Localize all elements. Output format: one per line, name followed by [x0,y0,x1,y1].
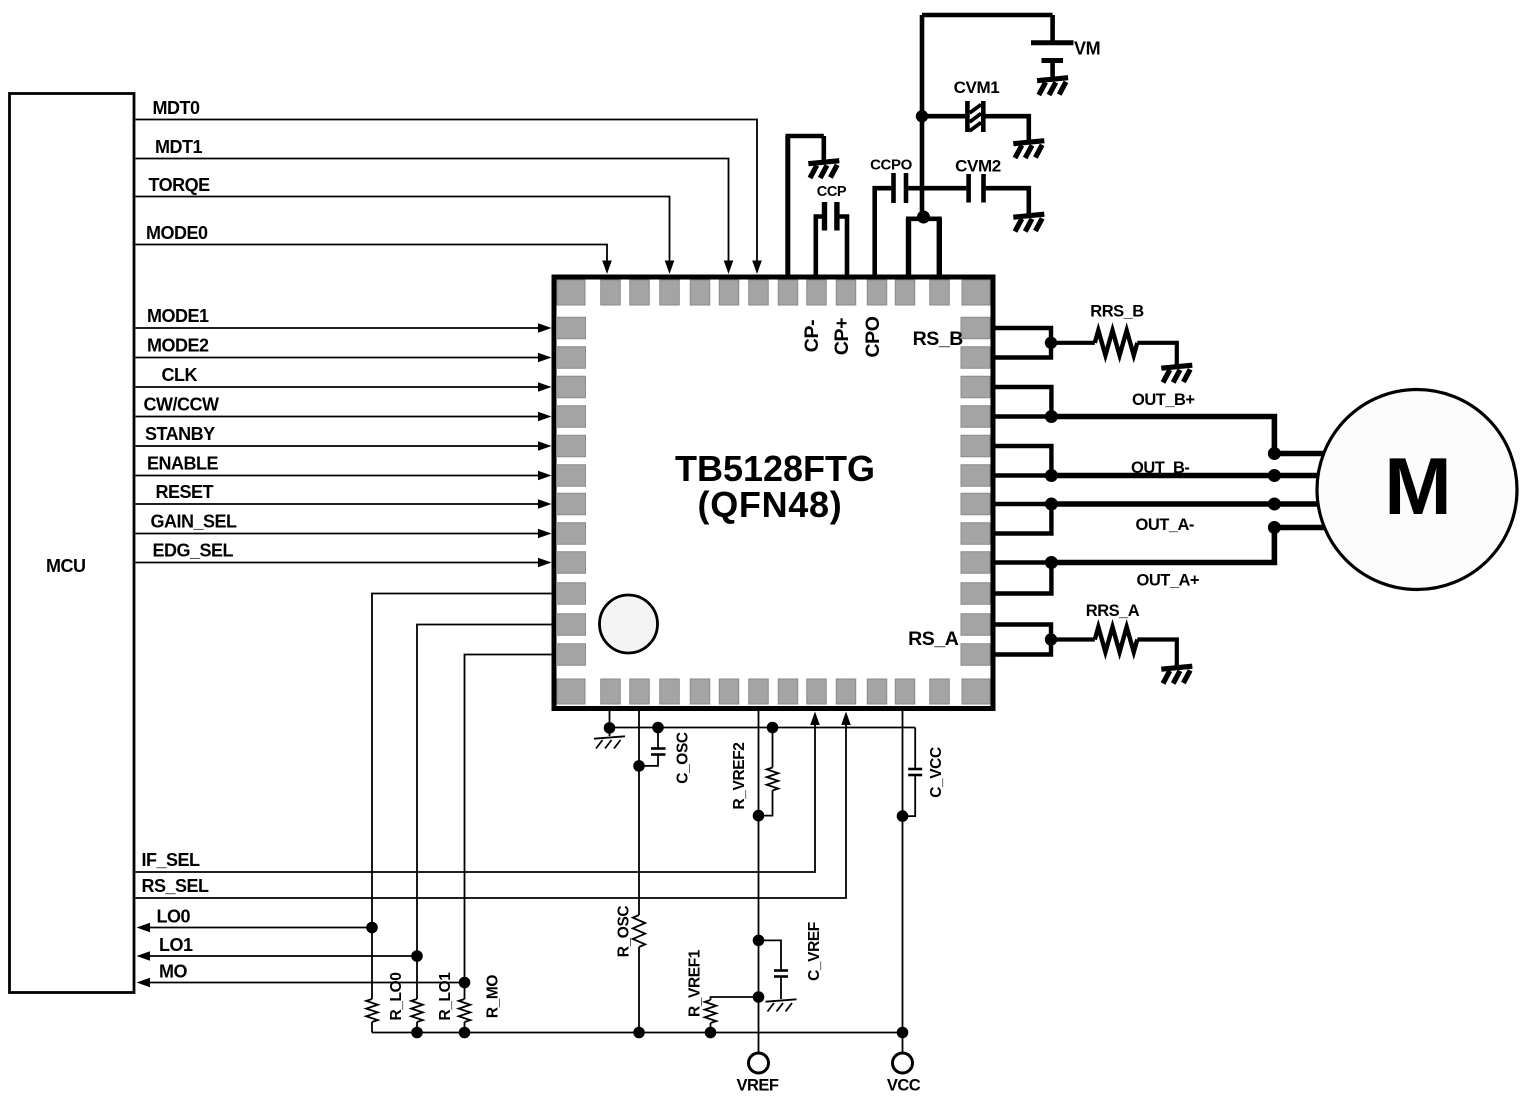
motor M [1317,390,1517,590]
node R_VREF2 bottom on VREF net [753,810,765,822]
wire OUT_B+ to motor [1051,417,1325,454]
svg-text:MDT0: MDT0 [153,98,200,118]
node OUT_A- at motor [1268,498,1281,511]
wire RRS_B to ground [1137,343,1177,365]
wire left pin 11 to vertical column x=417 [417,625,552,957]
resistor R_LO1 [411,999,423,1022]
svg-text:CP-: CP- [801,320,823,352]
wire MODE1 from MCU to left pin [136,327,540,329]
svg-text:IF_SEL: IF_SEL [142,850,201,870]
wire MDT0 from MCU to top pin [136,120,758,263]
svg-text:OUT_B-: OUT_B- [1131,459,1189,477]
capacitor CVM2 from VM line to ground [922,186,966,191]
wire VM top horizontal [922,13,1053,18]
wire R_LO0 column down to resistor [371,928,373,1000]
wire left pin 12 to vertical column x=464.5 [465,655,552,983]
node C_OSC bottom on R_OSC net [633,760,645,772]
svg-text:R_LO0: R_LO0 [388,973,405,1021]
svg-text:LO1: LO1 [159,935,193,955]
wire left pin 10 to vertical column x=372 [372,594,552,928]
wire bottom pin 1 to ground [609,711,611,736]
node RS_A junction [1045,633,1057,645]
wire R_OSC to bottom bus [638,947,640,1033]
battery VM [1050,15,1055,41]
resistor R_VREF2 (jog right of VREF line) [767,722,779,734]
svg-text:CP+: CP+ [831,318,853,355]
svg-text:MODE0: MODE0 [146,223,208,243]
node OUT_B- junction [1045,469,1058,482]
wire ENABLE from MCU to left pin [136,475,540,477]
wire VM pins bar (pins 11,12) [906,217,942,222]
QFN48 left pin column [557,317,586,665]
node C_VREF top on VREF net [753,935,765,947]
svg-text:STANBY: STANBY [145,424,215,444]
wire R_LO1 column down to resistor [416,956,418,999]
wire R_LO1 to bottom bus [416,1022,418,1033]
wire OUT_B- to motor [1051,473,1318,479]
resistor RRS_B [1095,330,1138,355]
node LO0 junction [366,922,378,934]
wire bottom bus (resistor commons to VCC) [372,1032,903,1034]
wire LO1 from MCU (arrow into MCU) [149,955,417,957]
capacitor C_OSC [657,728,659,749]
svg-text:R_LO1: R_LO1 [437,972,454,1021]
svg-text:R_VREF1: R_VREF1 [687,949,704,1017]
ground (RRS_A) [1161,666,1192,669]
wire R_MO to bottom bus [464,1022,466,1033]
ground (signal gnd at bottom pin 1) [594,736,625,738]
wire MODE2 from MCU to left pin [136,357,540,359]
node OUT_A+ junction [1045,556,1058,569]
node OUT_A- junction [1045,498,1058,511]
svg-text:VREF: VREF [736,1077,778,1095]
wire TORQE from MCU to top pin [136,197,670,263]
ground (CVM2) [1013,214,1044,217]
svg-text:R_OSC: R_OSC [616,906,633,958]
wire R_MO column down to resistor [464,983,466,1000]
wire VREF net from bottom pin 6 to VREF terminal [758,711,760,1053]
resistor R_MO [459,999,471,1022]
QFN48 top pin row [601,280,950,305]
wire LO0 from MCU (arrow into MCU) [149,927,372,929]
svg-text:C_VCC: C_VCC [928,747,945,798]
IC pin-1 indicator circle [600,595,658,653]
svg-text:MO: MO [159,962,187,982]
node pin1/ground junction [604,722,616,734]
svg-text:OUT_B+: OUT_B+ [1132,391,1195,409]
wire RRS_A to ground [1137,640,1177,666]
svg-text:CLK: CLK [162,365,198,385]
wire CP- pin 7 to ground via top route [785,136,790,275]
ground (CVM1) [1013,141,1044,144]
svg-text:VCC: VCC [887,1077,921,1095]
node R_VREF1 top on VREF net [753,991,765,1003]
resistor R_OSC [633,915,645,947]
node bus junctions [411,1027,423,1039]
QFN48 bottom pin row [601,679,950,704]
wire MDT1 from MCU to top pin [136,159,729,263]
svg-text:M: M [1384,442,1451,532]
capacitor CCPO from pin 10 to VM line [875,188,892,274]
wire STANBY from MCU to left pin [136,445,540,447]
svg-text:RRS_A: RRS_A [1086,602,1140,620]
ground (CP- top) [808,161,839,164]
terminal VREF [749,1053,769,1073]
svg-text:CVM2: CVM2 [955,157,1001,176]
svg-text:OUT_A-: OUT_A- [1136,516,1194,534]
ground (RRS_B) [1161,365,1192,368]
wire RS_A pins 11,12 join [996,625,1052,655]
wire ground rail y=727.5 to C_VCC [610,727,916,729]
capacitor CVM1 (hatched) from VM line to ground [922,114,965,119]
svg-text:LO0: LO0 [157,907,191,927]
node OUT_B+ corner [1268,447,1281,460]
wire OUT_A- to motor [1051,501,1318,507]
wire EDG_SEL from MCU to left pin [136,562,540,564]
wire MO from MCU (arrow into MCU) [149,982,465,984]
capacitor CCP between pins 8 and 9 [816,217,823,275]
node LO1 junction [411,950,423,962]
node OUT_B- at motor [1268,469,1281,482]
wire OUT_A- pins 7,8 join [996,504,1052,534]
wire MODE0 from MCU to top pin [136,245,608,263]
wire IF_SEL from MCU to bottom pin 8 [136,725,816,873]
svg-text:RS_B: RS_B [913,328,964,350]
svg-text:RRS_B: RRS_B [1090,303,1144,321]
ground (C_VREF) [766,999,797,1001]
svg-text:EDG_SEL: EDG_SEL [153,541,234,561]
wire R_LO0 to bottom bus [371,1022,373,1033]
svg-text:MCU: MCU [46,556,86,576]
svg-text:RS_SEL: RS_SEL [142,876,210,896]
wire RS_B pins 1,2 join [996,328,1052,358]
svg-text:MODE1: MODE1 [147,306,209,326]
terminal VCC [893,1053,913,1073]
wire CLK from MCU to left pin [136,386,540,388]
QFN48 right pin column [961,317,990,665]
svg-text:MDT1: MDT1 [155,137,202,157]
svg-text:TORQE: TORQE [149,175,211,195]
IC U1 TB5128FTG QFN48 body [554,277,993,709]
wire RS_SEL from MCU to bottom pin 9 [136,725,847,899]
ground (battery VM) [1037,78,1068,81]
wire OUT_A+ to motor [1051,528,1324,563]
svg-text:(QFN48): (QFN48) [698,484,843,525]
svg-text:C_OSC: C_OSC [675,732,692,784]
wire CW/CCW from MCU to left pin [136,416,540,418]
wire RS_A to resistor [1051,637,1095,641]
QFN48 corner pads [557,280,585,305]
resistor RRS_A [1095,627,1138,652]
wire R_OSC net from bottom pin 2 [638,711,640,915]
resistor R_LO0 [366,999,378,1022]
node OUT_A+ corner [1268,521,1281,534]
svg-text:R_MO: R_MO [485,975,502,1019]
svg-text:R_VREF2: R_VREF2 [731,743,748,810]
MCU block [10,94,135,993]
wire VM vertical line [920,15,925,216]
svg-text:CCP: CCP [817,184,847,200]
wire VCC net from bottom pin 11 to VCC terminal [902,711,904,1053]
svg-text:GAIN_SEL: GAIN_SEL [151,512,238,532]
wire OUT_B- pins 5,6 join [996,446,1052,476]
node VM line to pins bar [917,211,930,224]
wire RS_B to resistor [1051,341,1095,345]
wire OUT_B+ pins 3,4 join [996,387,1052,417]
svg-text:CCPO: CCPO [870,157,912,174]
svg-text:VM: VM [1074,39,1100,59]
wire RESET from MCU to left pin [136,503,540,505]
svg-text:RESET: RESET [156,482,214,502]
svg-text:MODE2: MODE2 [147,336,209,356]
svg-text:OUT_A+: OUT_A+ [1137,572,1200,590]
svg-text:ENABLE: ENABLE [147,454,218,474]
svg-text:CPO: CPO [862,316,884,357]
wire OUT_A+ pins 9,10 join [996,563,1052,594]
svg-text:C_VREF: C_VREF [806,922,823,981]
node MO junction [459,977,471,989]
svg-text:RS_A: RS_A [908,628,959,650]
node OUT_B+ junction [1045,410,1058,423]
node C_OSC top junction [652,722,664,734]
svg-text:CW/CCW: CW/CCW [144,395,219,415]
svg-text:CVM1: CVM1 [954,78,1000,97]
node C_VCC bottom on VCC net [897,810,909,822]
node CVM1 on VM line [916,110,928,122]
capacitor C_VCC [914,728,916,769]
wire GAIN_SEL from MCU to left pin [136,533,540,535]
node RS_B junction [1045,337,1057,349]
svg-text:TB5128FTG: TB5128FTG [675,448,875,489]
